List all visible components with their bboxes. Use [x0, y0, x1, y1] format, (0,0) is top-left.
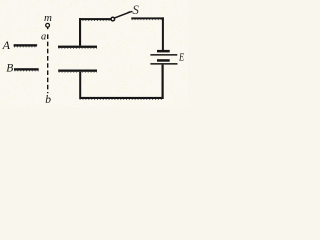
wire: top rail to switch pivot	[79, 18, 111, 20]
svg-text:a: a	[41, 31, 46, 42]
top plate left segment (terminal A)	[14, 44, 37, 46]
battery plate 4 (long thin)	[150, 63, 177, 65]
bottom plate left segment (terminal B)	[14, 68, 39, 70]
svg-text:A: A	[2, 38, 11, 52]
wire: stem from bottom plate down to bottom rail	[79, 72, 81, 97]
svg-text:m: m	[44, 12, 52, 24]
svg-text:b: b	[45, 94, 51, 106]
wire: battery bottom stem	[162, 65, 164, 97]
wire: bottom rail	[79, 97, 164, 99]
battery plate 1 (short thick)	[157, 50, 170, 53]
top plate right segment	[58, 46, 97, 48]
svg-text:B: B	[6, 63, 13, 75]
battery plate 3 (short thick)	[157, 59, 170, 62]
wire: right vertical down to battery	[162, 17, 164, 50]
scan serration ticks under horizontal strokes	[14, 20, 164, 100]
charged ball at node m	[46, 23, 50, 27]
switch S arm	[115, 12, 130, 18]
switch arm tip nub	[128, 11, 133, 12]
switch pivot circle	[111, 17, 115, 21]
dashed path m-a-b	[47, 27, 48, 29]
battery plate 2 (long thin)	[150, 54, 177, 56]
svg-text:E: E	[178, 51, 184, 63]
bottom plate right segment	[58, 70, 97, 72]
wire: top rail right of switch	[131, 17, 164, 19]
svg-text:S: S	[132, 2, 139, 17]
wire: stem from top plate up to top rail	[79, 18, 81, 45]
